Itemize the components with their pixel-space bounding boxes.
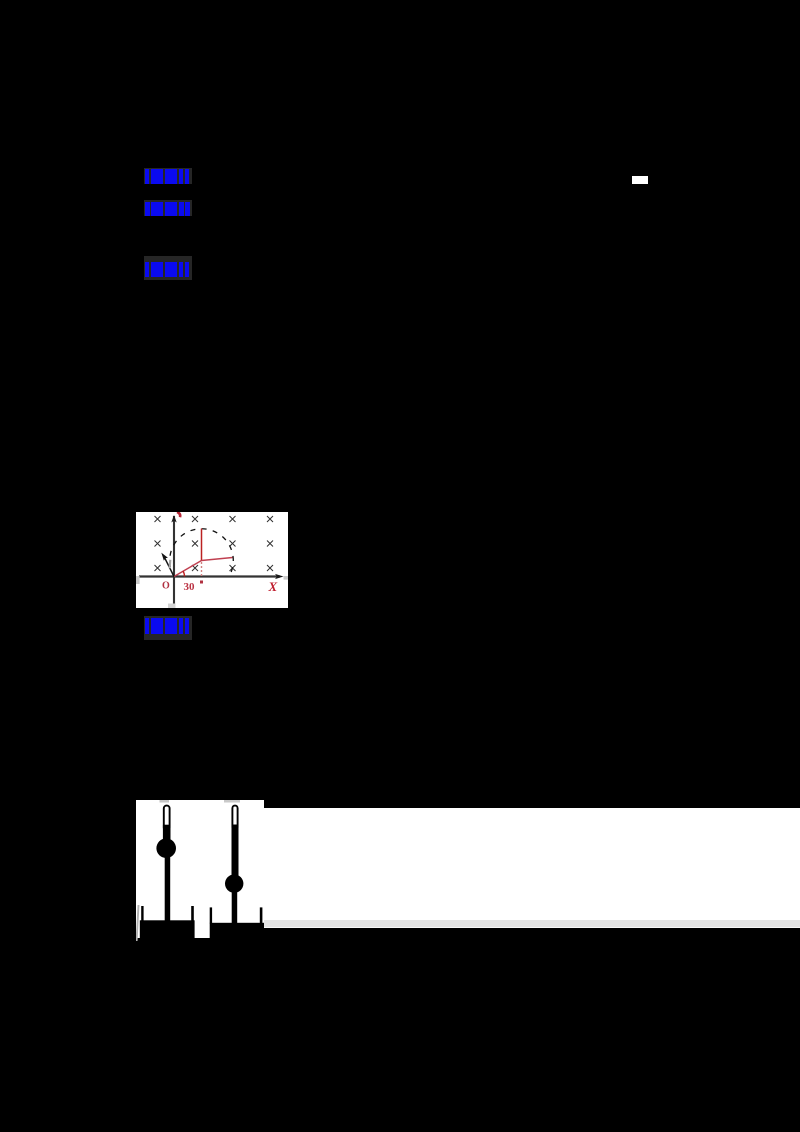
- label y partial at top: [177, 512, 180, 517]
- label tag 1 blue tag text: [145, 169, 190, 184]
- gray handle bottom center: [168, 604, 176, 609]
- velocity arrow from origin up-left: [165, 558, 175, 577]
- left beaker left wall: [141, 906, 143, 921]
- red radius from O to center: [174, 561, 202, 577]
- left thermometer stem: [165, 855, 171, 921]
- left beaker right wall: [191, 906, 194, 921]
- right thermometer stem: [232, 891, 238, 924]
- label tag 4 blue tag text: [145, 618, 191, 634]
- gray cut mark above left tube: [160, 800, 170, 803]
- label tag 3 blue tag text: [145, 262, 190, 277]
- gray ghost mark near arrow: [169, 560, 172, 568]
- label tag 2 highlight box: [144, 200, 192, 216]
- white blank rect in problem text: [632, 176, 648, 185]
- wide white selection band: [136, 808, 800, 920]
- red radius center to right: [202, 558, 233, 561]
- red angle arc at origin: [183, 571, 185, 577]
- y axis: [173, 516, 175, 608]
- x axis: [139, 575, 280, 577]
- svg-text:30: 30: [184, 581, 196, 593]
- gray handle left middle: [136, 576, 140, 584]
- svg-text:X: X: [268, 579, 278, 594]
- right beaker right wall: [260, 907, 263, 923]
- gray handle right middle: [284, 576, 289, 580]
- right thermometer liquid column: [232, 825, 239, 877]
- label tag 3 highlight box: [144, 256, 192, 281]
- figure background: [136, 800, 264, 938]
- right thermometer bulb: [225, 874, 243, 892]
- figure 1: charged particle in magnetic field diagram: [136, 512, 288, 608]
- gray cut mark above right tube: [224, 800, 240, 803]
- label tag 4 highlight box: [144, 616, 192, 640]
- left thermometer liquid column: [163, 825, 171, 841]
- dashed trajectory circle: [170, 529, 234, 577]
- figure background: [136, 512, 288, 608]
- right beaker liquid: [210, 923, 264, 941]
- svg-text:O: O: [162, 581, 170, 592]
- y axis arrowhead: [171, 515, 176, 523]
- field cross marks grid: [155, 516, 274, 571]
- figure 2: two thermometers in beakers: [136, 800, 264, 941]
- label tag 2 blue tag text: [145, 202, 190, 216]
- gray strip under band: [264, 920, 800, 927]
- left thermometer capillary tube: [164, 806, 170, 831]
- red vertical radius center to top: [201, 529, 203, 561]
- thin white line under gray strip: [264, 927, 800, 928]
- right thermometer capillary tube: [232, 806, 237, 831]
- red dotted drop from center to x axis: [201, 562, 203, 576]
- right beaker left wall: [210, 907, 212, 923]
- gray line at left edge: [137, 905, 139, 941]
- x axis arrowhead: [275, 574, 284, 579]
- left beaker liquid: [140, 920, 195, 941]
- left thermometer bulb: [156, 838, 176, 858]
- label tag 1 highlight box: [144, 168, 192, 184]
